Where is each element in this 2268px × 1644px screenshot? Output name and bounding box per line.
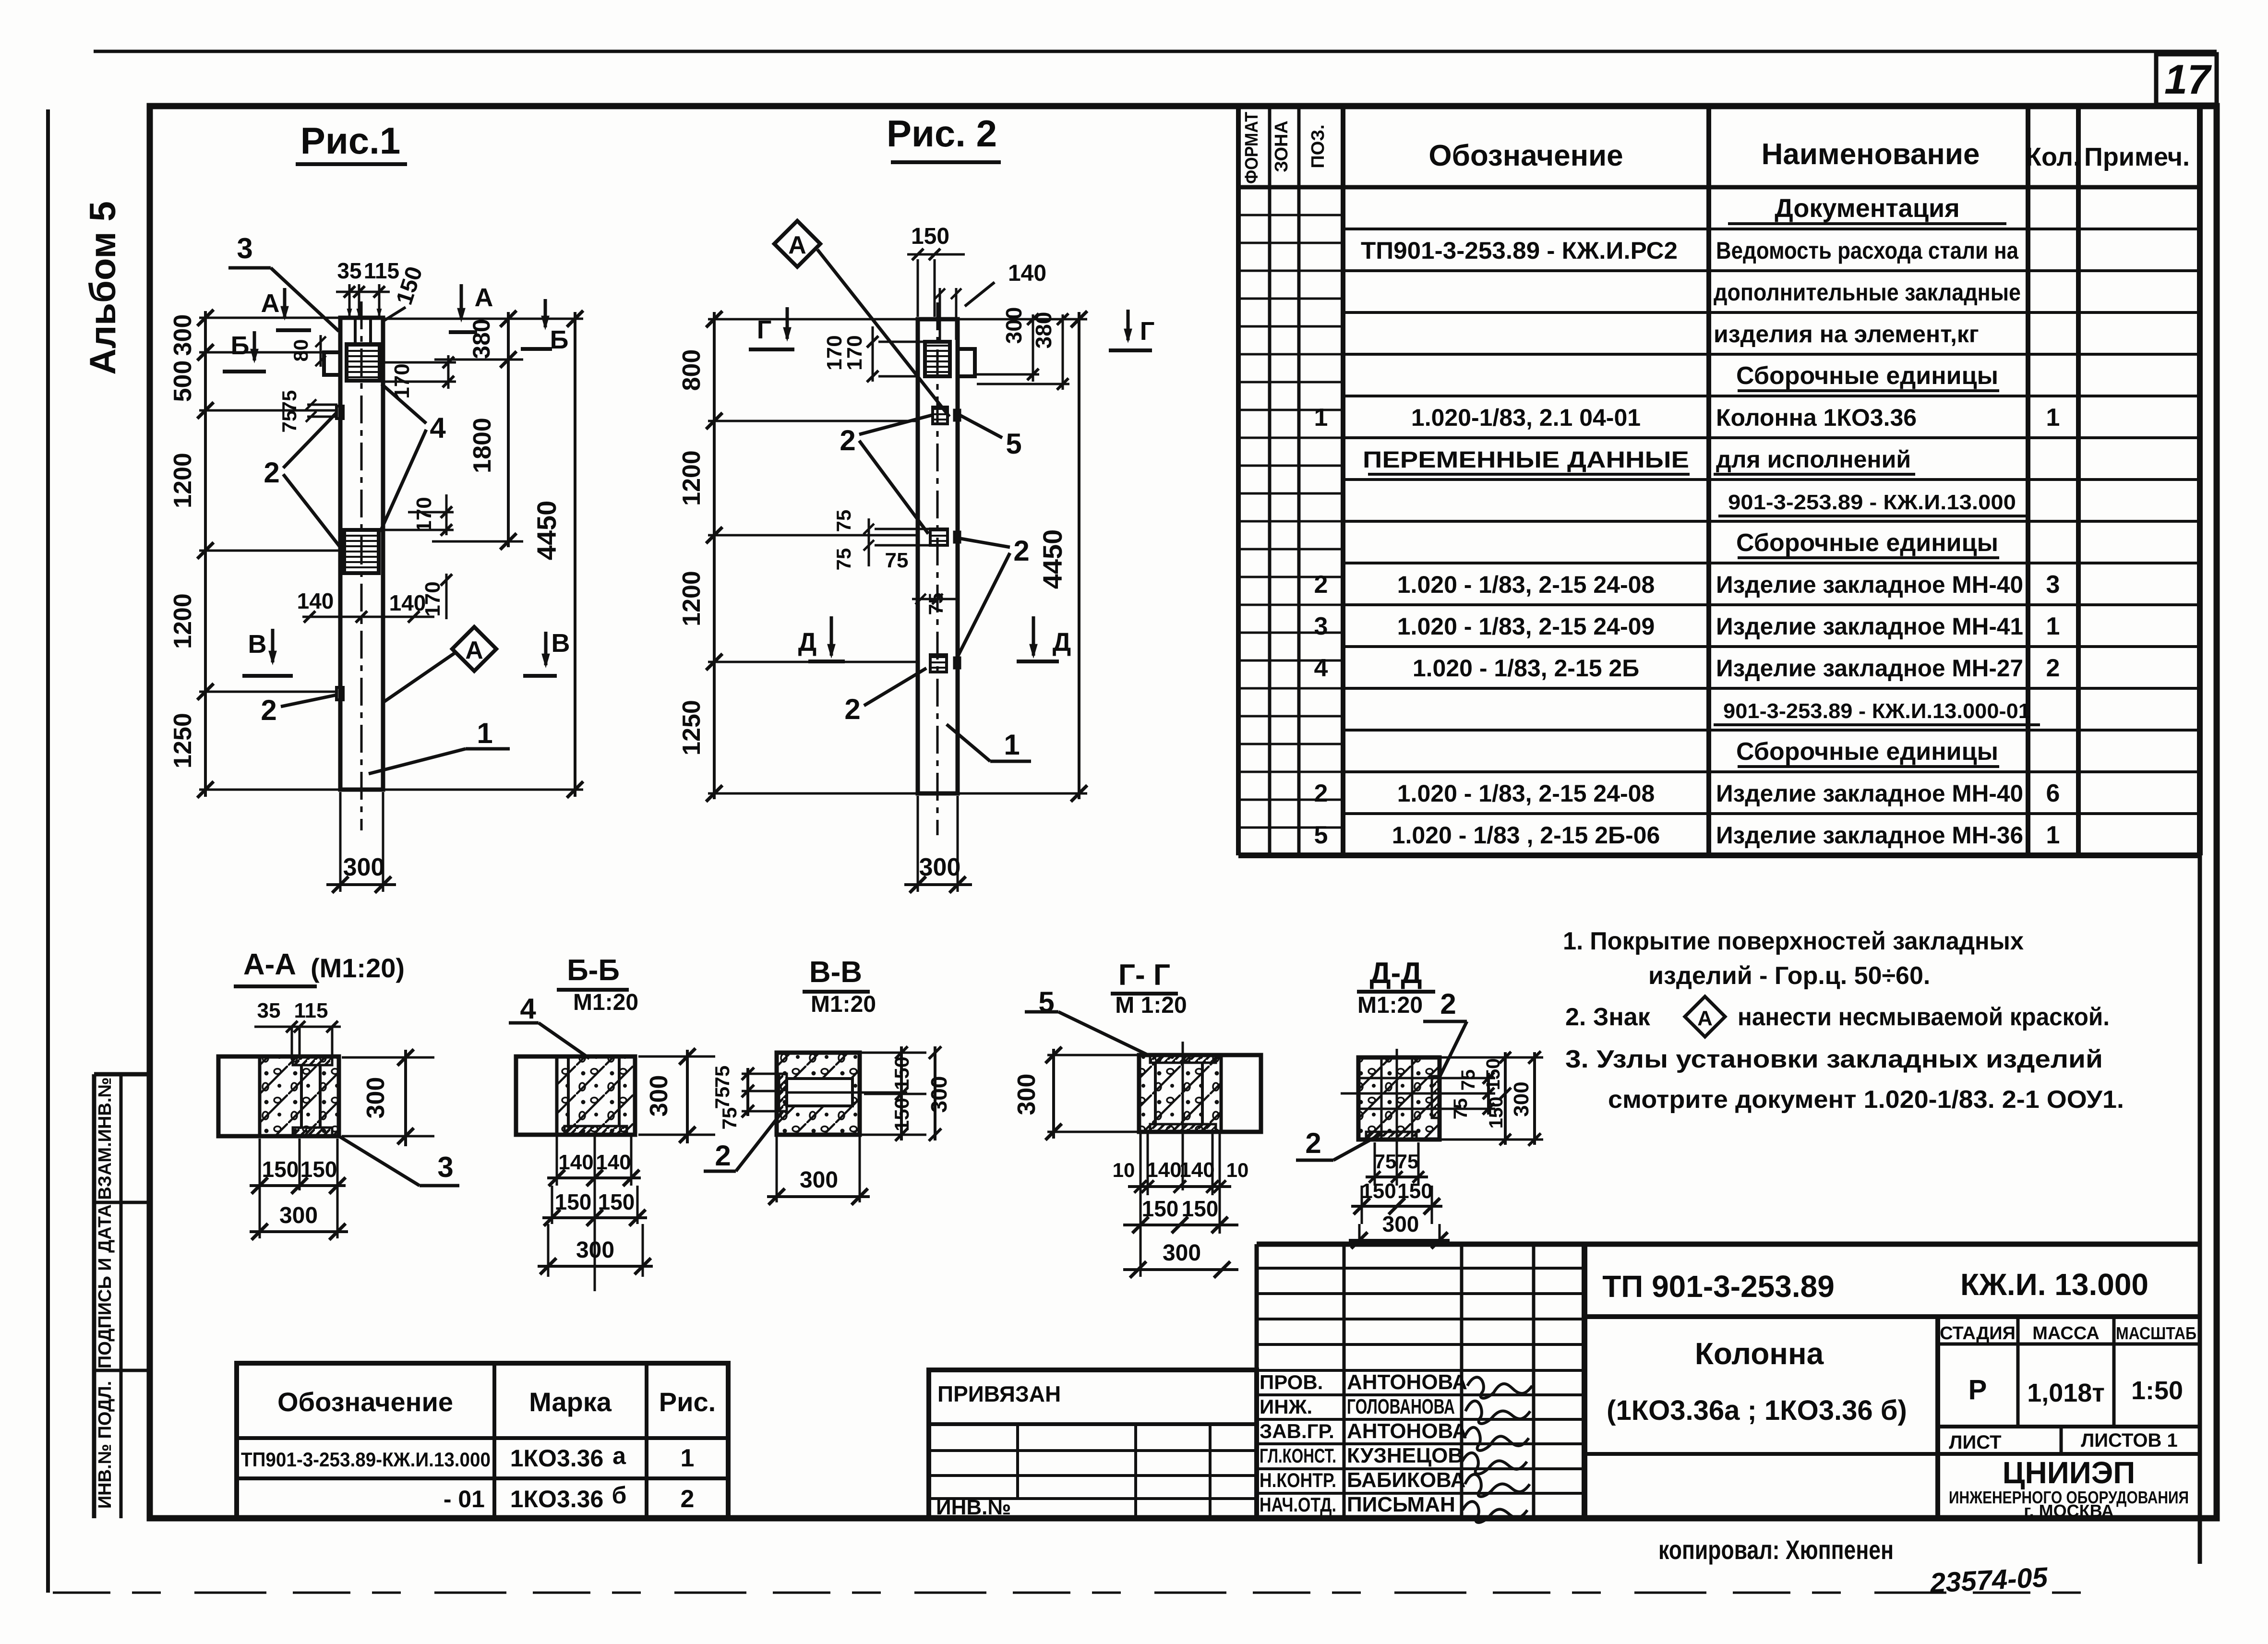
fig1 oblique dim 150 — [384, 307, 406, 321]
svg-text:2: 2 — [1305, 1127, 1321, 1159]
section B-B body — [516, 1056, 635, 1135]
svg-text:Марка: Марка — [529, 1387, 612, 1417]
svg-text:МАССА: МАССА — [2032, 1323, 2100, 1344]
svg-text:150: 150 — [262, 1157, 299, 1182]
svg-text:Д: Д — [1053, 628, 1071, 657]
svg-text:НАЧ.ОТД.: НАЧ.ОТД. — [1260, 1493, 1336, 1516]
svg-text:150: 150 — [911, 224, 949, 249]
signature block grid — [1257, 1242, 2200, 1247]
section B-B dim 300 bottom — [547, 1224, 550, 1277]
svg-text:Д: Д — [798, 628, 816, 657]
svg-text:1.020 - 1/83, 2-15 2Б: 1.020 - 1/83, 2-15 2Б — [1413, 655, 1639, 682]
svg-text:Документация: Документация — [1775, 194, 1959, 223]
section D-D rebar grid — [1380, 1057, 1383, 1140]
svg-text:150: 150 — [1361, 1179, 1396, 1203]
section V-V plate horizontal band — [787, 1079, 852, 1106]
svg-text:2: 2 — [264, 456, 279, 489]
svg-text:380: 380 — [468, 319, 495, 359]
svg-text:ГОЛОВАНОВА: ГОЛОВАНОВА — [1347, 1395, 1455, 1418]
fig1 column axis line — [360, 301, 363, 830]
svg-text:4: 4 — [430, 412, 446, 444]
left stamp column boxes — [92, 1074, 96, 1518]
svg-text:ПРОВ.: ПРОВ. — [1260, 1371, 1323, 1393]
fig2 dim 4450 — [1078, 312, 1080, 799]
section A-A plate strips — [293, 1056, 332, 1065]
section V-V dims 75 75 75 left — [746, 1068, 749, 1116]
svg-text:г. МОСКВА: г. МОСКВА — [2024, 1501, 2114, 1521]
svg-text:300: 300 — [343, 853, 385, 881]
svg-text:СТАДИЯ: СТАДИЯ — [1940, 1323, 2016, 1344]
svg-text:2: 2 — [844, 693, 860, 725]
section V-V dim 300 bottom — [776, 1137, 778, 1202]
svg-text:500: 500 — [169, 360, 197, 402]
svg-text:4450: 4450 — [531, 501, 562, 561]
privyazan block — [929, 1370, 1257, 1518]
svg-text:А: А — [475, 283, 493, 312]
svg-text:75: 75 — [1374, 1150, 1397, 1173]
svg-text:75: 75 — [711, 1066, 733, 1088]
fig1 dim 4450 line — [574, 312, 576, 797]
svg-text:17: 17 — [2164, 57, 2212, 103]
svg-text:В: В — [552, 629, 570, 658]
svg-text:АНТОНОВА: АНТОНОВА — [1347, 1419, 1467, 1443]
section B-B dims 150 150 — [551, 1186, 553, 1224]
fig2 embedded plate top (pos 5 area) — [925, 342, 950, 376]
svg-text:ПОЗ.: ПОЗ. — [1308, 124, 1328, 168]
fig2 small plate 3 side mark — [954, 658, 960, 668]
svg-text:Обозначение: Обозначение — [277, 1387, 453, 1417]
svg-text:150: 150 — [1397, 1179, 1432, 1203]
svg-text:ПЕРЕМЕННЫЕ ДАННЫЕ: ПЕРЕМЕННЫЕ ДАННЫЕ — [1363, 447, 1689, 473]
svg-text:140: 140 — [297, 588, 334, 613]
svg-text:1200: 1200 — [169, 593, 197, 649]
svg-text:ИНВ.№ ПОДЛ.: ИНВ.№ ПОДЛ. — [95, 1381, 115, 1509]
svg-text:300: 300 — [576, 1237, 614, 1263]
svg-text:75: 75 — [924, 593, 947, 615]
svg-text:Б: Б — [550, 325, 569, 354]
svg-text:901-3-253.89 - КЖ.И.13.000-01: 901-3-253.89 - КЖ.И.13.000-01 — [1723, 699, 2030, 723]
svg-text:800: 800 — [678, 349, 706, 391]
section A-A dim 300 bottom — [336, 1190, 339, 1238]
fig1 left dimension chain 300/500/1200/1200/1250 — [204, 311, 207, 797]
svg-text:3: 3 — [1314, 612, 1328, 640]
section A-A dim 300 right — [404, 1050, 407, 1146]
section A-A body — [218, 1056, 339, 1136]
svg-text:300: 300 — [1163, 1240, 1201, 1266]
svg-text:Б-Б: Б-Б — [567, 954, 620, 987]
svg-text:150: 150 — [1486, 1097, 1507, 1129]
svg-text:Изделие закладное МН-40: Изделие закладное МН-40 — [1716, 571, 2023, 598]
fig2 left dimension chain 800/1200/1200/1250 — [713, 312, 716, 799]
svg-text:1: 1 — [477, 717, 492, 749]
fig2 small plate 1 side mark — [954, 410, 960, 420]
svg-text:АНТОНОВА: АНТОНОВА — [1347, 1370, 1467, 1394]
svg-text:2: 2 — [1440, 988, 1456, 1020]
svg-text:1.020 - 1/83, 2-15 24-08: 1.020 - 1/83, 2-15 24-08 — [1397, 780, 1655, 807]
fig1 small plate mark upper (pos 2) — [336, 406, 343, 419]
svg-text:10: 10 — [1113, 1159, 1135, 1181]
svg-text:А: А — [788, 231, 806, 259]
svg-text:75: 75 — [832, 510, 855, 532]
title block name cell Kolonna — [1935, 1317, 1940, 1518]
svg-text:140: 140 — [558, 1151, 593, 1174]
svg-text:М1:20: М1:20 — [811, 992, 876, 1017]
svg-text:Сборочные единицы: Сборочные единицы — [1736, 362, 1998, 390]
svg-text:а: а — [612, 1442, 626, 1469]
svg-text:М 1:20: М 1:20 — [1115, 993, 1187, 1018]
fig1 small plate mark lower (pos 2) — [336, 687, 343, 700]
svg-text:дополнительные закладные: дополнительные закладные — [1714, 279, 2021, 306]
section A-A dims 150 150 — [259, 1139, 261, 1238]
svg-text:ИНЖ.: ИНЖ. — [1260, 1395, 1312, 1418]
svg-text:1250: 1250 — [678, 700, 706, 756]
section D-D dims 75 75 bottom — [1374, 1142, 1376, 1186]
section G-G dims 150 150 — [1123, 1224, 1238, 1226]
svg-text:5: 5 — [1314, 821, 1328, 849]
fig1 embedded plate middle (pos 4) — [344, 530, 379, 573]
svg-text:6: 6 — [2046, 780, 2060, 807]
svg-text:2: 2 — [1314, 780, 1328, 807]
svg-text:150: 150 — [890, 1098, 913, 1131]
svg-text:300: 300 — [1013, 1074, 1041, 1116]
svg-text:А: А — [261, 289, 280, 318]
svg-text:23574-05: 23574-05 — [1929, 1561, 2049, 1599]
svg-text:В-В: В-В — [809, 956, 862, 989]
svg-text:М1:20: М1:20 — [1357, 993, 1423, 1018]
svg-text:Г- Г: Г- Г — [1118, 959, 1170, 992]
svg-text:901-3-253.89 - КЖ.И.13.000: 901-3-253.89 - КЖ.И.13.000 — [1728, 491, 2016, 514]
svg-text:Рис. 2: Рис. 2 — [887, 112, 997, 155]
svg-text:2: 2 — [1013, 535, 1029, 567]
svg-text:ГЛ.КОНСТ.: ГЛ.КОНСТ. — [1260, 1444, 1336, 1467]
section G-G plate strips — [1150, 1055, 1216, 1063]
fig1 embedded plate top (pos 3) — [347, 344, 380, 381]
svg-text:ЛИСТОВ 1: ЛИСТОВ 1 — [2081, 1430, 2178, 1451]
svg-text:2: 2 — [715, 1140, 731, 1172]
svg-text:75: 75 — [711, 1087, 733, 1109]
svg-text:150: 150 — [1483, 1058, 1504, 1091]
svg-text:Колонна 1КО3.36: Колонна 1КО3.36 — [1716, 404, 1917, 431]
svg-text:нанести несмываемой краской.: нанести несмываемой краской. — [1738, 1003, 2110, 1031]
page border left thin line — [46, 109, 50, 1593]
svg-text:ЗАВ.ГР.: ЗАВ.ГР. — [1260, 1420, 1334, 1442]
section D-D dim 300 bottom — [1358, 1224, 1361, 1244]
svg-text:В: В — [248, 630, 267, 659]
svg-text:изделия на элемент,кг: изделия на элемент,кг — [1714, 321, 1979, 348]
svg-text:ТП901-3-253.89 - КЖ.И.РС2: ТП901-3-253.89 - КЖ.И.РС2 — [1361, 237, 1678, 264]
fig2 small plate 1 (pos 2) — [933, 407, 948, 424]
svg-text:300: 300 — [1382, 1212, 1419, 1236]
section D-D dim 300 right — [1533, 1052, 1536, 1145]
page border top thin line — [94, 50, 2217, 53]
section B-B dim 300 right — [686, 1050, 689, 1143]
fig2 bottom dim 300 — [917, 796, 919, 892]
svg-text:ЗОНА: ЗОНА — [1272, 120, 1292, 172]
svg-text:300: 300 — [919, 853, 961, 881]
svg-text:75: 75 — [1458, 1069, 1479, 1091]
svg-text:140: 140 — [1008, 261, 1046, 286]
title block header TP 901-3-253.89 / KZh.I. 13.000 — [1584, 1314, 2200, 1319]
svg-text:Изделие закладное МН-40: Изделие закладное МН-40 — [1716, 780, 2023, 807]
section G-G body — [1139, 1055, 1261, 1132]
fig2 small plate 2 (pos 2) — [930, 529, 948, 545]
svg-text:1: 1 — [2046, 404, 2060, 432]
fig2 console notch right — [958, 349, 975, 376]
svg-text:150: 150 — [300, 1157, 337, 1182]
svg-text:2: 2 — [1314, 571, 1328, 599]
svg-text:10: 10 — [1226, 1159, 1249, 1181]
svg-text:75: 75 — [1396, 1150, 1419, 1173]
svg-text:Изделие закладное МН-41: Изделие закладное МН-41 — [1716, 613, 2023, 640]
svg-text:4: 4 — [1314, 654, 1328, 682]
svg-text:150: 150 — [1182, 1196, 1219, 1221]
svg-text:1,018т: 1,018т — [2027, 1379, 2105, 1407]
svg-text:ПРИВЯЗАН: ПРИВЯЗАН — [937, 1381, 1061, 1406]
svg-text:ВЗАМ.ИНВ.№: ВЗАМ.ИНВ.№ — [95, 1077, 115, 1200]
section G-G dim 300 left — [1052, 1049, 1055, 1139]
section B-B dims 140 140 — [556, 1137, 558, 1186]
svg-text:1: 1 — [1004, 729, 1020, 761]
svg-text:для исполнений: для исполнений — [1716, 446, 1911, 473]
svg-text:1200: 1200 — [678, 571, 706, 626]
svg-text:Сборочные единицы: Сборочные единицы — [1736, 529, 1998, 557]
svg-text:150: 150 — [598, 1189, 635, 1214]
svg-text:300: 300 — [926, 1076, 951, 1113]
svg-text:ФОРМАТ: ФОРМАТ — [1242, 112, 1262, 184]
section G-G dims 10 140 140 10 — [1140, 1134, 1142, 1277]
fig1 stamp diamond A — [452, 627, 496, 671]
svg-text:Сборочные единицы: Сборочные единицы — [1736, 738, 1998, 766]
svg-text:75: 75 — [1450, 1098, 1471, 1120]
specification table grid — [1236, 106, 1241, 855]
svg-text:3: 3 — [237, 232, 252, 264]
svg-text:ЛИСТ: ЛИСТ — [1949, 1432, 2001, 1453]
svg-text:115: 115 — [294, 999, 328, 1022]
svg-text:1: 1 — [681, 1444, 695, 1472]
svg-text:Г: Г — [757, 315, 772, 344]
svg-text:Наименование: Наименование — [1762, 138, 1980, 171]
section B-B plate — [564, 1126, 627, 1135]
section D-D dims 150 150 right — [1504, 1052, 1507, 1145]
svg-text:Кол.: Кол. — [2026, 143, 2080, 171]
svg-text:1200: 1200 — [169, 453, 197, 508]
svg-text:1:50: 1:50 — [2131, 1376, 2183, 1405]
svg-text:А: А — [465, 636, 483, 664]
svg-text:Р: Р — [1968, 1374, 1987, 1405]
svg-text:2. Знак: 2. Знак — [1565, 1003, 1651, 1031]
svg-text:75: 75 — [718, 1107, 741, 1130]
svg-text:1.020-1/83, 2.1 04-01: 1.020-1/83, 2.1 04-01 — [1411, 404, 1641, 431]
svg-text:3. Узлы установки закладны: 3. Узлы установки закладных изделий — [1565, 1045, 2103, 1073]
svg-text:4: 4 — [520, 993, 536, 1025]
svg-text:1800: 1800 — [468, 418, 496, 473]
svg-text:35: 35 — [257, 999, 281, 1022]
svg-text:ТП901-3-253.89-КЖ.И.13.000: ТП901-3-253.89-КЖ.И.13.000 — [241, 1448, 491, 1471]
svg-text:МАСШТАБ: МАСШТАБ — [2116, 1323, 2196, 1343]
svg-text:2: 2 — [840, 424, 855, 456]
bottom left table (designation/mark/fig) — [237, 1363, 728, 1518]
svg-text:300: 300 — [1510, 1081, 1533, 1116]
page border bottom thin broken line — [53, 1592, 2107, 1594]
fig1 bottom dim 300 — [339, 792, 342, 892]
svg-text:БАБИКОВА: БАБИКОВА — [1347, 1468, 1465, 1492]
svg-text:75: 75 — [278, 410, 300, 433]
fig1 console notch — [324, 352, 340, 375]
svg-text:35: 35 — [337, 258, 361, 283]
svg-text:Д-Д: Д-Д — [1370, 957, 1422, 990]
svg-text:(1КО3.36а ; 1КО3.36 б): (1КО3.36а ; 1КО3.36 б) — [1607, 1395, 1907, 1426]
svg-text:300: 300 — [362, 1077, 390, 1119]
fig2 small plate 3 (pos 2) — [930, 655, 947, 672]
svg-text:копировал: Хюппенен: копировал: Хюппенен — [1658, 1535, 1894, 1565]
svg-text:1200: 1200 — [678, 450, 706, 506]
svg-text:5: 5 — [1006, 428, 1021, 460]
svg-text:75: 75 — [832, 548, 855, 571]
svg-text:300: 300 — [169, 314, 197, 356]
fig2 column axis line — [936, 302, 939, 835]
svg-text:Колонна: Колонна — [1695, 1336, 1824, 1371]
svg-text:Рис.1: Рис.1 — [300, 120, 400, 162]
svg-text:КУЗНЕЦОВ: КУЗНЕЦОВ — [1347, 1444, 1463, 1467]
svg-text:140: 140 — [596, 1151, 631, 1174]
svg-text:3: 3 — [2046, 571, 2060, 599]
notes diamond A — [1685, 996, 1725, 1037]
svg-text:3: 3 — [437, 1151, 453, 1183]
section V-V body — [777, 1053, 860, 1135]
svg-text:1: 1 — [2046, 821, 2060, 849]
svg-text:Примеч.: Примеч. — [2084, 143, 2190, 171]
svg-text:300: 300 — [1001, 307, 1026, 344]
svg-text:1.020 - 1/83, 2-15 24-08: 1.020 - 1/83, 2-15 24-08 — [1397, 571, 1655, 598]
svg-text:(М1:20): (М1:20) — [311, 953, 405, 983]
svg-text:115: 115 — [364, 258, 399, 283]
svg-text:140: 140 — [1146, 1158, 1181, 1182]
fig2 small plate 2 side mark — [954, 532, 960, 542]
svg-text:Н.КОНТР.: Н.КОНТР. — [1260, 1469, 1336, 1491]
svg-text:1: 1 — [1314, 404, 1328, 432]
svg-text:ИНВ.№: ИНВ.№ — [936, 1496, 1011, 1519]
svg-text:1250: 1250 — [169, 713, 197, 768]
fig1 dim 380 / 1800 line — [507, 312, 510, 547]
sheet number box 17 — [2156, 54, 2217, 105]
svg-text:Обозначение: Обозначение — [1428, 139, 1623, 172]
svg-text:Альбом 5: Альбом 5 — [83, 201, 123, 375]
svg-text:б: б — [612, 1482, 627, 1509]
svg-text:1.020 - 1/83, 2-15 24-09: 1.020 - 1/83, 2-15 24-09 — [1397, 613, 1655, 640]
svg-text:300: 300 — [279, 1203, 318, 1228]
fig1 column body — [340, 318, 383, 790]
svg-text:Рис.: Рис. — [659, 1387, 716, 1417]
svg-text:КЖ.И. 13.000: КЖ.И. 13.000 — [1960, 1267, 2148, 1302]
fig2 stamp diamond A — [774, 221, 820, 267]
svg-text:75: 75 — [885, 549, 909, 572]
svg-text:Изделие закладное МН-27: Изделие закладное МН-27 — [1716, 655, 2023, 682]
svg-text:смотрите документ 1.020-1/83: смотрите документ 1.020-1/83. 2-1 ООУ1. — [1608, 1086, 2124, 1114]
fig2 column body — [918, 319, 958, 793]
svg-text:1. Покрытие поверхностей зак: 1. Покрытие поверхностей закладных — [1563, 927, 2024, 955]
section G-G dim 300 bottom — [1123, 1268, 1238, 1271]
svg-text:300: 300 — [645, 1075, 673, 1117]
svg-text:300: 300 — [800, 1167, 838, 1193]
svg-text:А-А: А-А — [243, 948, 296, 981]
svg-text:170: 170 — [843, 335, 866, 370]
svg-text:1: 1 — [2046, 612, 2060, 640]
svg-text:80: 80 — [289, 339, 312, 362]
svg-text:М1:20: М1:20 — [573, 990, 638, 1015]
svg-text:140: 140 — [389, 590, 426, 615]
section D-D dims 150 150 bottom — [1361, 1186, 1363, 1224]
svg-text:2: 2 — [2046, 654, 2060, 682]
section V-V dims 150 150 right — [900, 1046, 903, 1140]
svg-text:2: 2 — [681, 1485, 695, 1513]
svg-text:Изделие закладное МН-36: Изделие закладное МН-36 — [1716, 822, 2023, 849]
svg-text:Б: Б — [231, 331, 250, 360]
title block stadia massa masshtab — [1938, 1343, 2200, 1346]
main drawing frame — [150, 106, 2217, 1518]
section V-V dim 300 right — [934, 1046, 936, 1140]
svg-text:ЦНИИЭП: ЦНИИЭП — [2003, 1455, 2136, 1490]
svg-text:2: 2 — [261, 694, 276, 726]
svg-text:Г: Г — [1140, 317, 1155, 346]
svg-text:150: 150 — [555, 1189, 592, 1214]
svg-text:А: А — [1697, 1007, 1713, 1030]
svg-text:150: 150 — [1142, 1196, 1179, 1221]
svg-text:75: 75 — [278, 390, 300, 413]
svg-text:1КО3.36: 1КО3.36 — [510, 1486, 604, 1512]
svg-text:4450: 4450 — [1037, 529, 1068, 589]
svg-text:ТП 901-3-253.89: ТП 901-3-253.89 — [1602, 1269, 1835, 1304]
svg-text:- 01: - 01 — [444, 1486, 485, 1512]
svg-text:170: 170 — [412, 497, 436, 532]
svg-text:изделий - Гор.ц. 50÷60.: изделий - Гор.ц. 50÷60. — [1648, 962, 1930, 990]
svg-text:140: 140 — [1179, 1158, 1214, 1182]
svg-text:150: 150 — [890, 1056, 913, 1090]
svg-text:170: 170 — [421, 581, 444, 616]
inner right border line — [2198, 106, 2202, 1564]
svg-text:ПОДПИСЬ И ДАТА: ПОДПИСЬ И ДАТА — [95, 1204, 115, 1368]
section D-D dims 75 75 right — [1487, 1073, 1490, 1115]
section D-D body — [1358, 1057, 1440, 1140]
svg-text:Ведомость расхода стали на: Ведомость расхода стали на — [1716, 237, 2019, 264]
svg-text:ПИСЬМАН: ПИСЬМАН — [1347, 1493, 1455, 1516]
svg-text:1.020 - 1/83 , 2-15 2Б-06: 1.020 - 1/83 , 2-15 2Б-06 — [1392, 822, 1660, 849]
svg-text:1КО3.36: 1КО3.36 — [510, 1445, 604, 1472]
section D-D plate strips — [1432, 1076, 1440, 1118]
